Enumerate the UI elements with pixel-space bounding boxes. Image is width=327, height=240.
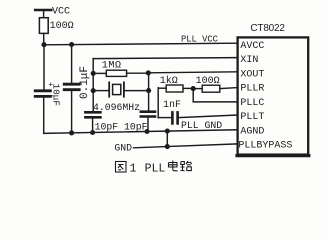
resistor R3 1kΩ [158,85,193,118]
node bus/C2 [69,130,74,135]
svg-text:100Ω: 100Ω [50,21,74,32]
node bus/C3 [90,130,95,135]
svg-text:1kΩ: 1kΩ [160,75,178,87]
node XOUT/crystal [146,88,151,93]
svg-text:100Ω: 100Ω [196,76,220,87]
wire XOUT rail [148,73,150,112]
svg-text:CT8022: CT8022 [250,23,285,34]
node C2 tap [69,42,74,47]
wire bus to GND link [166,131,168,147]
IC U1 CT8022 [238,37,309,154]
capacitor C4 10pF (right) [141,112,155,132]
capacitor C3 10pF (left) [85,112,100,132]
svg-text:10μF: 10μF [51,84,62,107]
svg-text:1: 1 [130,163,137,176]
svg-text:AGND: AGND [240,126,264,137]
svg-text:PLL: PLL [145,163,166,176]
wire from R1 to PLL VCC rail [43,33,45,44]
wire PLLC [193,89,237,102]
svg-text:PLLBYPASS: PLLBYPASS [238,141,292,152]
svg-text:1nF: 1nF [163,100,181,111]
svg-text:XIN: XIN [240,55,258,66]
node XIN/1MΩ [91,71,96,76]
svg-text:PLL GND: PLL GND [181,120,222,131]
svg-text:GND: GND [114,143,132,154]
node VCC rail / C1 [41,42,46,47]
svg-text:AVCC: AVCC [240,41,264,52]
svg-text:PLLC: PLLC [240,98,264,109]
svg-text:PLL VCC: PLL VCC [181,35,218,45]
node bus/C4 [144,129,149,134]
power VCC [35,10,51,18]
crystal Y1 [95,82,148,96]
svg-text:0.1μF: 0.1μF [79,66,91,99]
svg-text:1MΩ: 1MΩ [102,61,122,72]
capacitor C5 1nF [158,112,237,123]
capacitor C1 10μF (polarized) [35,45,50,134]
node bus/GND link [165,129,170,134]
wire XIN [93,58,237,59]
svg-text:PLLT: PLLT [240,112,264,123]
wire XIN rail [92,59,94,113]
svg-text:VCC: VCC [52,7,70,18]
capacitor C2 0.1μF [64,45,79,133]
resistor R2 1MΩ [93,70,148,76]
node R3/R4 junction [191,86,196,91]
node XOUT/1MΩ [146,70,151,75]
svg-text:XOUT: XOUT [240,69,264,80]
glyph 电 [169,161,178,171]
svg-text:10pF 10pF: 10pF 10pF [95,121,148,132]
wire XOUT [148,72,237,73]
resistor R4 100Ω [193,85,237,92]
svg-text:PLLR: PLLR [240,84,264,95]
node XIN/crystal [91,88,96,93]
node GND link bottom [165,144,170,149]
wire PLL VCC bus [44,43,237,45]
glyph 图 [116,162,127,173]
glyph 路 [181,161,192,171]
resistor R1 100Ω [39,18,48,34]
ground bus wire [44,130,237,134]
caption 图1 PLL电路 [116,161,192,176]
wire GND to PLLBYPASS [134,144,237,148]
